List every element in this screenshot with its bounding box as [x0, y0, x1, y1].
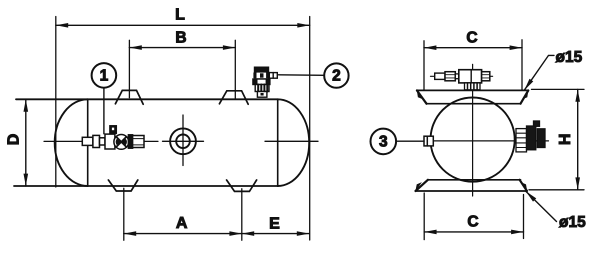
svg-text:H: H	[557, 134, 574, 146]
extension line C top right	[521, 40, 523, 90]
svg-text:3: 3	[379, 133, 388, 150]
leader phi15 top	[524, 55, 554, 90]
extension line C top left	[423, 41, 425, 90]
svg-text:ø15: ø15	[556, 49, 583, 66]
end view shell circle	[431, 98, 515, 182]
extension line A left	[123, 188, 125, 240]
leader callout 1	[103, 88, 105, 134]
extension line A right	[241, 189, 243, 240]
right dished head	[278, 99, 310, 186]
svg-text:C: C	[467, 213, 478, 230]
top pad 2	[219, 91, 248, 104]
callout circle 3	[371, 129, 397, 155]
end view horizontal centerline	[424, 140, 549, 142]
extension line H bottom	[529, 189, 584, 191]
leader callout 2	[279, 74, 325, 77]
bottom foot 2	[227, 180, 257, 191]
extension line B left	[128, 40, 130, 97]
valve V1 centerline	[44, 140, 158, 142]
leader phi15 bottom	[526, 191, 557, 221]
bottom bracket plate	[415, 180, 527, 191]
dimension E	[242, 233, 309, 235]
dimension C bottom	[424, 231, 523, 233]
callout circle 1	[92, 63, 117, 88]
valve V2 (fitting on tank top)	[253, 67, 277, 97]
svg-text:2: 2	[332, 68, 341, 85]
extension line B right	[234, 40, 236, 98]
manhole crosshair	[163, 115, 204, 166]
dimension L	[56, 24, 310, 26]
left dished head	[55, 99, 88, 186]
svg-text:C: C	[466, 29, 477, 46]
top pad 1	[115, 90, 143, 104]
svg-text:L: L	[175, 7, 185, 24]
manhole flange	[170, 128, 196, 154]
dimension B	[129, 47, 235, 49]
dimension D	[25, 99, 27, 186]
dimension H	[577, 89, 579, 189]
valve V1 (drain ball valve on left head)	[82, 126, 144, 150]
dimension A	[124, 233, 242, 235]
svg-text:A: A	[176, 215, 188, 232]
extension line H top	[532, 88, 585, 90]
left head seam	[87, 99, 89, 186]
extension line L/E right	[309, 17, 311, 241]
svg-text:1: 1	[100, 67, 109, 84]
extension line C bottom right	[523, 195, 525, 239]
svg-text:B: B	[175, 30, 186, 47]
port fitting left (end view)	[424, 136, 433, 146]
extension line C bottom left	[423, 193, 425, 240]
leader callout 3	[396, 140, 424, 142]
extension line L left	[55, 17, 57, 188]
svg-text:E: E	[269, 216, 280, 233]
end view vertical centerline	[472, 64, 474, 196]
right head centerline	[265, 140, 318, 142]
svg-text:D: D	[6, 134, 23, 146]
valve V2 end view (on top bracket)	[431, 70, 493, 90]
bottom foot 1	[108, 180, 137, 191]
svg-text:ø15: ø15	[559, 214, 586, 231]
top bracket plate	[417, 90, 529, 104]
tank shell top line (side view, extended left as D extension)	[16, 98, 278, 100]
right head seam	[277, 99, 279, 186]
valve V3 right (end view, hatched)	[516, 121, 545, 152]
dimension C top	[424, 47, 522, 49]
callout circle 2	[324, 63, 348, 87]
tank shell bottom line (extended left as D extension)	[14, 185, 278, 187]
